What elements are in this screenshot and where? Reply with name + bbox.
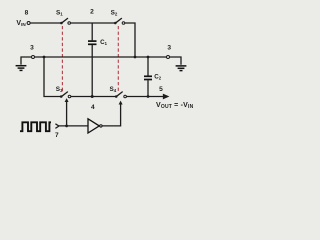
junction C2 top <box>147 56 150 59</box>
wire inverter output to S4 control arrow <box>102 104 120 126</box>
switch S2 <box>111 10 125 25</box>
svg-text:VIN: VIN <box>16 20 26 27</box>
junction on osc wire <box>65 125 68 128</box>
wire S2 to ground rail <box>125 23 135 57</box>
control line S1-S3 (dashed) <box>61 26 63 92</box>
svg-text:S4: S4 <box>110 86 117 93</box>
junction C1 bottom (pin 4) <box>91 95 94 98</box>
oscillator pulse waveform <box>20 122 51 131</box>
wire S3 to S4 (pin 4 rail) <box>71 96 116 98</box>
pin 7 input chevron <box>55 124 59 129</box>
svg-text:VOUT = -VIN: VOUT = -VIN <box>156 102 194 110</box>
svg-text:4: 4 <box>91 104 95 111</box>
svg-text:S3: S3 <box>56 86 63 93</box>
pin 3 node (right) <box>167 56 170 59</box>
junction C2 bottom <box>147 95 150 98</box>
svg-text:S2: S2 <box>111 10 118 17</box>
wire S1 to S2 (through pin 2 junction) <box>71 22 115 24</box>
svg-text:3: 3 <box>30 45 34 52</box>
capacitor C1 <box>88 23 108 97</box>
inverter U1 <box>88 119 102 133</box>
svg-text:2: 2 <box>90 9 94 16</box>
ground rail (mid, y57) <box>21 57 181 65</box>
ground (right) <box>176 66 187 71</box>
svg-text:5: 5 <box>159 86 163 93</box>
switch S1 <box>56 9 70 24</box>
svg-text:S1: S1 <box>56 9 63 16</box>
svg-text:8: 8 <box>25 10 29 17</box>
control arrow to S3 <box>66 102 68 126</box>
switch S3 <box>56 86 71 98</box>
svg-text:C2: C2 <box>154 74 161 81</box>
svg-text:3: 3 <box>167 45 171 52</box>
ground (left) <box>16 66 27 71</box>
output arrow (pin 5) <box>163 95 168 99</box>
wire gnd rail to S3 <box>44 57 60 97</box>
wire pin7 to inverter <box>59 125 88 127</box>
svg-text:7: 7 <box>55 132 59 139</box>
control line S2-S4 (dashed) <box>117 26 119 92</box>
node pin 8 (input terminal) <box>27 22 30 25</box>
svg-text:C1: C1 <box>100 39 107 46</box>
wire VIN node to S1 <box>30 22 62 24</box>
junction + wire down to S3 <box>43 56 46 59</box>
junction (135,57) <box>134 56 137 59</box>
switch S4 <box>110 86 127 98</box>
wire S4 to output arrow <box>126 96 163 98</box>
control arrow to S4 <box>119 101 123 105</box>
pin 3 node (left) <box>32 56 35 59</box>
capacitor C2 <box>144 57 162 97</box>
